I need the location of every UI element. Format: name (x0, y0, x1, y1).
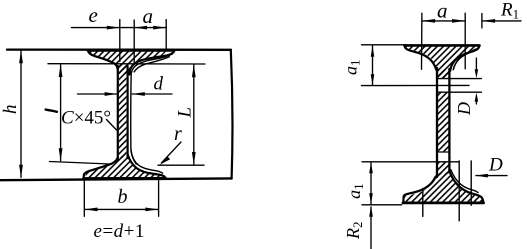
bottom flange hatch (404, 173, 482, 203)
top flange top edge emphasis (88, 49, 174, 52)
dimension d left part (78, 93, 118, 95)
svg-text:R1: R1 (500, 0, 519, 22)
dimension h (20, 51, 22, 178)
web hatch band 1 (438, 70, 449, 78)
web hatch band 2 (438, 92, 449, 151)
web hatch (119, 63, 127, 158)
svg-text:b: b (118, 186, 128, 208)
extension line a right (464, 13, 466, 69)
web right edge (126, 66, 128, 158)
D upper extension line 2 (438, 91, 481, 93)
R1 extension line (481, 14, 483, 28)
r leader with arrow (162, 142, 182, 163)
bottom flange right S-curve (outer) (128, 155, 166, 179)
l bottom extension line (50, 162, 111, 165)
vertical extension line through bottom flange (right) (470, 161, 472, 205)
web construction line right of web (131, 72, 136, 164)
l/L top extension line (48, 63, 205, 65)
svg-text:C×45°: C×45° (61, 108, 111, 129)
bottom flange right S-curve (construction) (131, 150, 163, 173)
arrow e right (107, 26, 120, 30)
arrow a left (134, 26, 147, 30)
top flange right underside (outer) (450, 46, 479, 71)
extension line a left (421, 13, 423, 69)
extension line a right (165, 20, 167, 51)
arrow a right (153, 26, 166, 30)
top flange underside S-curve (middle) (132, 54, 173, 73)
top flange right underside (inner) (453, 49, 475, 69)
dimension a1 upper (372, 46, 374, 85)
top flange hatch (89, 51, 167, 74)
svg-text:D: D (454, 102, 474, 116)
svg-text:L: L (175, 107, 196, 119)
svg-text:D: D (488, 155, 503, 176)
web hatch band 3 (438, 162, 449, 175)
dimension a1 lower (370, 162, 372, 204)
web left edge (117, 66, 119, 160)
chamfer leader line (107, 120, 117, 131)
top flange hatch (406, 47, 479, 79)
dimension b (85, 208, 159, 210)
dimension line for e and a (72, 27, 167, 29)
top flange left underside (88, 51, 118, 70)
svg-text:a: a (437, 0, 448, 23)
top flange left underside (405, 46, 437, 70)
svg-text:a1: a1 (341, 60, 363, 76)
svg-text:a1: a1 (344, 183, 366, 199)
svg-text:a: a (143, 4, 154, 28)
bottom flange hatch (85, 155, 162, 177)
vertical extension line through bottom flange (mid) (458, 161, 460, 221)
svg-text:h: h (0, 105, 21, 115)
right closure vertical line (231, 50, 233, 179)
R1 leader (482, 20, 521, 22)
svg-text:e: e (89, 3, 98, 27)
flange top-left extension line (362, 44, 407, 46)
bottom flange bottom edge (403, 201, 484, 204)
svg-text:e=d+1: e=d+1 (94, 221, 145, 242)
top flange underside S-curve (inner) (134, 57, 169, 72)
b extension line right (158, 180, 160, 216)
R2 leader (370, 207, 372, 249)
web inner line above lower band (438, 151, 450, 153)
bottom flange right side (construction) (451, 170, 478, 193)
top flange top edge (405, 44, 480, 47)
top surface line (7, 48, 231, 51)
svg-text:R2: R2 (343, 222, 365, 241)
b extension line left (83, 181, 85, 217)
bottom flange left side (403, 177, 435, 203)
bottom flange left side (84, 158, 118, 178)
web left edge (436, 68, 438, 177)
lower-left extension line (top of a1 lower) (362, 161, 459, 163)
bottom flange right side (outer) (450, 172, 484, 203)
label l (rotated) (46, 110, 57, 112)
D dimension arrows (475, 58, 477, 72)
vertical extension line through bottom flange (left) (422, 189, 424, 217)
dimension l (60, 64, 62, 161)
D middle line (362, 84, 470, 86)
bottom flange bottom edge emphasis (84, 177, 166, 180)
lower-left extension line (bottom of a1 lower) (362, 204, 402, 206)
svg-text:d: d (154, 74, 164, 95)
extension line web left (119, 20, 121, 62)
D upper extension line 1 (438, 78, 481, 80)
L bottom extension line (158, 164, 204, 166)
dimension L (193, 65, 195, 165)
extension line web right (133, 20, 135, 64)
bottom surface line (0, 178, 232, 180)
dimension a (top) (422, 20, 465, 22)
dimension d right part (132, 93, 172, 95)
D lower leader arrow (476, 175, 507, 177)
web right edge (448, 69, 450, 173)
top flange right tip and underside S-curve (outer) (129, 51, 174, 75)
